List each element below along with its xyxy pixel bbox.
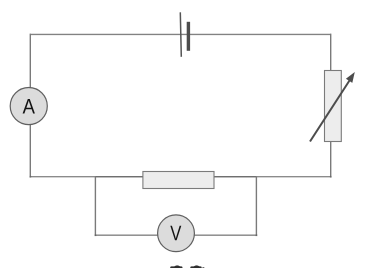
wire voltmeter branch right vertical (255, 177, 257, 236)
voltmeter label V (170, 226, 181, 241)
junction dot bottom-left corner (30, 176, 32, 178)
resistor R (143, 172, 214, 189)
ammeter A circle (10, 88, 47, 125)
wire right vertical (330, 34, 332, 178)
watermark blob left (cut off at bottom edge) (170, 265, 182, 268)
wire bottom main horizontal (30, 176, 330, 178)
rheostat arrow shaft (310, 81, 350, 142)
wire voltmeter branch left vertical (94, 177, 96, 236)
voltmeter V circle (158, 215, 195, 252)
wire bottom main darker overlap segment between voltmeter taps (95, 176, 256, 178)
junction dot voltmeter loop bottom-right (256, 234, 258, 236)
ammeter label A (23, 99, 35, 114)
watermark blob right (cut off at bottom edge) (190, 265, 204, 268)
rheostat body (325, 71, 342, 142)
battery cell: long thin plate (180, 12, 181, 57)
wire left vertical (29, 34, 31, 178)
battery cell: short thick plate (187, 22, 190, 51)
rheostat arrow head (346, 72, 355, 83)
junction dot bottom-right corner (330, 176, 332, 178)
wire voltmeter branch bottom horizontal (95, 234, 256, 236)
wire top horizontal (30, 33, 330, 35)
junction dot voltmeter loop bottom-left (95, 234, 97, 236)
